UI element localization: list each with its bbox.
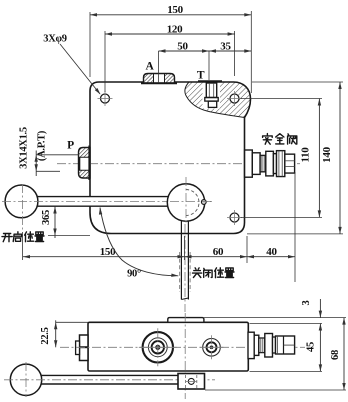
svg-text:60: 60	[213, 246, 224, 258]
svg-text:150: 150	[167, 4, 183, 16]
svg-text:P: P	[67, 140, 74, 152]
svg-text:120: 120	[167, 23, 183, 35]
svg-text:45: 45	[306, 342, 317, 352]
svg-text:365: 365	[41, 210, 52, 225]
svg-text:40: 40	[266, 246, 277, 258]
svg-text:150: 150	[100, 246, 116, 258]
svg-text:110: 110	[300, 147, 312, 163]
svg-text:50: 50	[177, 40, 188, 52]
svg-text:(A.P.T): (A.P.T)	[37, 130, 48, 161]
svg-text:22.5: 22.5	[40, 327, 51, 344]
svg-text:3: 3	[301, 300, 312, 305]
svg-text:140: 140	[321, 146, 333, 162]
svg-text:T: T	[197, 70, 205, 82]
svg-text:A: A	[145, 61, 154, 73]
svg-text:90°: 90°	[127, 269, 141, 280]
svg-text:35: 35	[220, 40, 231, 52]
svg-text:3Xφ9: 3Xφ9	[43, 34, 66, 45]
svg-text:3X14X1.5: 3X14X1.5	[19, 127, 30, 169]
svg-text:68: 68	[330, 350, 341, 360]
